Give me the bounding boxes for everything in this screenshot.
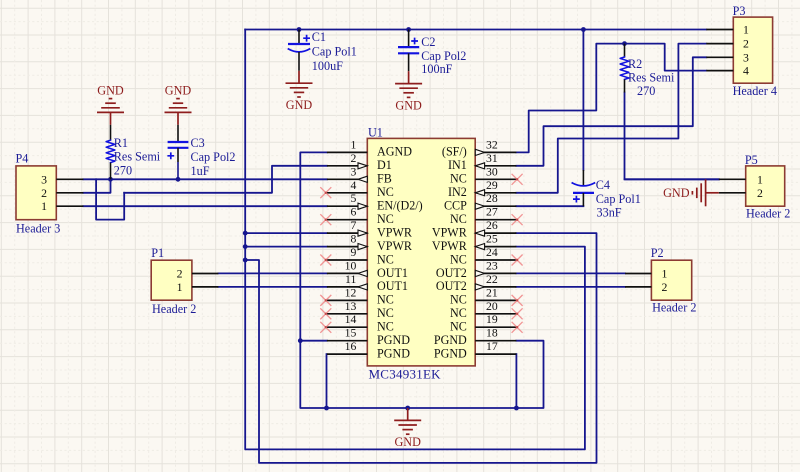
wire P4.2 riser <box>83 179 110 193</box>
svg-text:1: 1 <box>350 138 356 151</box>
svg-text:100uF: 100uF <box>312 59 343 73</box>
svg-text:AGND: AGND <box>377 145 412 159</box>
header P2 <box>651 260 691 300</box>
svg-text:2: 2 <box>350 152 356 165</box>
pin 4 NC <box>327 192 367 194</box>
svg-text:OUT1: OUT1 <box>377 266 408 280</box>
svg-text:7: 7 <box>350 219 356 232</box>
svg-text:EN/(D2/): EN/(D2/) <box>377 199 423 213</box>
svg-text:27: 27 <box>486 206 498 219</box>
svg-text:Cap Pol1: Cap Pol1 <box>312 45 357 59</box>
pins P5 <box>719 178 746 180</box>
pin 8 VPWR <box>327 246 367 248</box>
pin 19 NC <box>475 326 516 328</box>
pin 24 NC <box>475 259 516 261</box>
wire P5.1 run <box>625 178 719 180</box>
svg-text:GND: GND <box>97 84 124 98</box>
wire R2 bottom to P5.1 <box>625 93 719 180</box>
svg-text:Res Semi: Res Semi <box>628 71 675 85</box>
pin 15 PGND <box>327 340 367 342</box>
ground <box>395 71 422 97</box>
svg-text:Res Semi: Res Semi <box>114 150 161 164</box>
svg-text:13: 13 <box>345 300 357 313</box>
svg-text:270: 270 <box>114 164 132 178</box>
pin 10 OUT1 <box>327 272 367 274</box>
wire VPWR top bus <box>245 29 706 31</box>
pin direction markers U1 <box>358 163 367 169</box>
junction pin 15 <box>298 338 303 343</box>
header P5 <box>746 166 785 206</box>
svg-text:P3: P3 <box>733 4 746 18</box>
svg-text:100nF: 100nF <box>421 62 452 76</box>
pin 3 FB <box>327 178 367 180</box>
wire AGND pin 1 riser <box>300 152 543 408</box>
no-connect pin 12 <box>320 295 331 306</box>
capacitor C3 <box>177 125 179 142</box>
junction R1 bottom <box>108 177 113 182</box>
wire PGND pin 15 <box>300 340 327 342</box>
wire VPWR pin 7 tap <box>245 232 327 234</box>
junction ground stem <box>405 406 410 411</box>
svg-text:2: 2 <box>743 37 749 51</box>
svg-text:GND: GND <box>394 435 421 449</box>
svg-text:NC: NC <box>377 212 394 226</box>
svg-text:3: 3 <box>41 172 47 186</box>
svg-text:11: 11 <box>345 273 356 286</box>
svg-text:25: 25 <box>486 233 498 246</box>
wire VPWR pin 8 tap <box>245 246 327 248</box>
pin 5 EN/(D2/) <box>327 205 367 207</box>
wire IN2 pin 29 to P3.2 <box>516 44 706 193</box>
pin 16 PGND <box>327 353 367 355</box>
svg-text:32: 32 <box>486 138 498 151</box>
svg-text:NC: NC <box>377 252 394 266</box>
pin 23 OUT2 <box>475 272 516 274</box>
wire IN1 pin 31 to P3.3 <box>516 57 706 166</box>
pin 17 PGND <box>475 353 516 355</box>
pin 2 D1 <box>327 165 367 167</box>
svg-text:(SF/): (SF/) <box>442 145 467 159</box>
pins P4 <box>56 178 83 180</box>
svg-text:16: 16 <box>345 340 357 353</box>
svg-text:Header 2: Header 2 <box>152 302 196 316</box>
svg-text:NC: NC <box>377 185 394 199</box>
pin 32 (SF/) <box>475 151 516 153</box>
svg-text:6: 6 <box>350 206 356 219</box>
pin 11 OUT1 <box>327 286 367 288</box>
svg-text:Header 2: Header 2 <box>652 301 696 315</box>
wire SF/ pin 32 to P3.4 and R2 <box>516 44 706 153</box>
svg-text:5: 5 <box>350 192 356 205</box>
header P4 <box>16 166 56 220</box>
svg-text:4: 4 <box>350 179 356 192</box>
svg-text:GND: GND <box>165 84 192 98</box>
no-connect pin 19 <box>512 322 523 333</box>
svg-text:NC: NC <box>377 306 394 320</box>
svg-text:R1: R1 <box>114 136 128 150</box>
svg-text:1: 1 <box>757 172 763 186</box>
no-connect pin 20 <box>512 308 523 319</box>
pin 22 OUT2 <box>475 286 516 288</box>
wire P4.3 to FB pin 3 <box>83 178 327 180</box>
pins P1 <box>192 273 219 275</box>
svg-text:19: 19 <box>486 313 498 326</box>
svg-text:1: 1 <box>177 280 183 294</box>
ground <box>692 179 718 206</box>
pin 27 NC <box>475 219 516 221</box>
svg-text:PGND: PGND <box>377 346 410 360</box>
svg-text:U1: U1 <box>368 126 383 140</box>
svg-text:26: 26 <box>486 219 498 232</box>
svg-text:1: 1 <box>41 199 47 213</box>
svg-text:OUT1: OUT1 <box>377 279 408 293</box>
svg-text:2: 2 <box>177 267 183 281</box>
pin 18 PGND <box>475 340 516 342</box>
junction C1 top <box>297 27 302 32</box>
svg-text:2: 2 <box>757 186 763 200</box>
pin 21 NC <box>475 299 516 301</box>
svg-text:33nF: 33nF <box>597 205 622 219</box>
svg-text:31: 31 <box>486 152 498 165</box>
svg-text:PGND: PGND <box>434 333 467 347</box>
header P1 <box>151 260 192 300</box>
no-connect pin 9 <box>320 255 331 266</box>
capacitor C1 <box>298 30 300 45</box>
pins P3 <box>706 29 733 31</box>
svg-text:C4: C4 <box>596 178 610 192</box>
junction pin 16 riser <box>324 406 329 411</box>
pin 20 NC <box>475 313 516 315</box>
svg-text:NC: NC <box>450 320 467 334</box>
svg-text:18: 18 <box>486 327 498 340</box>
svg-text:24: 24 <box>486 246 498 259</box>
pins P2 <box>625 273 651 275</box>
svg-text:OUT2: OUT2 <box>436 279 467 293</box>
svg-text:VPWR: VPWR <box>377 225 413 239</box>
svg-text:VPWR: VPWR <box>432 225 468 239</box>
resistor R2 <box>624 44 626 57</box>
ground <box>165 99 192 125</box>
svg-text:9: 9 <box>350 246 356 259</box>
no-connect pin 4 <box>320 187 331 198</box>
svg-text:R2: R2 <box>628 57 642 71</box>
svg-text:Header 4: Header 4 <box>733 84 777 98</box>
wire OUT2 pin 23 to P2.1 <box>516 272 625 274</box>
no-connect pin 13 <box>320 308 331 319</box>
svg-text:FB: FB <box>377 172 392 186</box>
svg-text:3: 3 <box>350 165 356 178</box>
pin 12 NC <box>327 299 367 301</box>
no-connect pin 24 <box>512 255 523 266</box>
resistor R1 <box>110 125 112 140</box>
pin 28 CCP <box>475 205 516 207</box>
svg-text:17: 17 <box>486 340 498 353</box>
svg-text:IN1: IN1 <box>448 158 467 172</box>
junction C3 bottom <box>176 177 181 182</box>
no-connect pin 14 <box>320 322 331 333</box>
svg-text:2: 2 <box>41 186 47 200</box>
svg-text:C3: C3 <box>191 136 205 150</box>
svg-text:270: 270 <box>637 84 655 98</box>
svg-text:14: 14 <box>345 313 357 326</box>
ground <box>286 71 313 97</box>
wire P1.2 to OUT1 pin 10 <box>218 272 327 274</box>
pin 31 IN1 <box>475 165 516 167</box>
svg-text:22: 22 <box>486 273 498 286</box>
pin 13 NC <box>327 313 367 315</box>
junction VPWR branch <box>243 258 248 263</box>
svg-text:NC: NC <box>450 172 467 186</box>
junction pin 17 riser <box>514 406 519 411</box>
svg-text:C2: C2 <box>421 35 435 49</box>
svg-text:NC: NC <box>450 306 467 320</box>
wire P4.1 to EN pin 5 <box>83 205 327 207</box>
svg-text:10: 10 <box>345 259 357 272</box>
svg-text:4: 4 <box>743 64 749 78</box>
svg-text:3: 3 <box>743 50 749 64</box>
svg-text:P2: P2 <box>651 246 664 260</box>
svg-text:GND: GND <box>663 186 690 200</box>
no-connect pin 21 <box>512 295 523 306</box>
capacitor C2 <box>408 30 410 48</box>
svg-text:D1: D1 <box>377 158 392 172</box>
svg-text:1uF: 1uF <box>191 164 210 178</box>
svg-text:P5: P5 <box>745 153 758 167</box>
pin 14 NC <box>327 326 367 328</box>
svg-text:CCP: CCP <box>444 199 467 213</box>
svg-text:NC: NC <box>450 252 467 266</box>
svg-text:15: 15 <box>345 327 357 340</box>
svg-text:Header 2: Header 2 <box>746 206 790 220</box>
svg-text:MC34931EK: MC34931EK <box>369 367 442 382</box>
svg-text:1: 1 <box>743 23 749 37</box>
svg-text:Cap Pol2: Cap Pol2 <box>191 150 236 164</box>
pin 30 NC <box>475 178 516 180</box>
svg-text:1: 1 <box>662 267 668 281</box>
svg-text:PGND: PGND <box>377 333 410 347</box>
svg-text:NC: NC <box>377 293 394 307</box>
no-connect pin 30 <box>512 174 523 185</box>
svg-text:Header 3: Header 3 <box>16 222 60 236</box>
svg-text:VPWR: VPWR <box>377 239 413 253</box>
svg-text:2: 2 <box>662 280 668 294</box>
wire D1 pin 2 run <box>124 166 327 193</box>
svg-text:28: 28 <box>486 192 498 205</box>
svg-text:GND: GND <box>395 98 422 112</box>
svg-text:P4: P4 <box>16 152 29 166</box>
pin 26 VPWR <box>475 232 516 234</box>
svg-text:C1: C1 <box>312 30 326 44</box>
pin 25 VPWR <box>475 246 516 248</box>
wire PGND pin 17 riser <box>515 354 517 408</box>
pin 7 VPWR <box>327 232 367 234</box>
svg-text:VPWR: VPWR <box>432 239 468 253</box>
no-connect pin 27 <box>512 214 523 225</box>
no-connect pin 6 <box>320 214 331 225</box>
svg-text:NC: NC <box>450 293 467 307</box>
svg-text:8: 8 <box>350 233 356 246</box>
wire P4.3 jog down <box>96 179 124 219</box>
ground <box>394 408 421 434</box>
wire VPWR left riser / bottom run / right riser to pin 25 <box>245 30 585 450</box>
junction C2 top <box>406 27 411 32</box>
svg-text:IN2: IN2 <box>448 185 467 199</box>
pin 9 NC <box>327 259 367 261</box>
junction pin 8 <box>243 244 248 249</box>
junction R2 top <box>622 41 627 46</box>
svg-text:12: 12 <box>345 286 357 299</box>
junction C4 riser <box>581 27 586 32</box>
ground <box>97 99 124 125</box>
svg-text:NC: NC <box>450 212 467 226</box>
svg-text:NC: NC <box>377 320 394 334</box>
wire PGND pin 16 riser <box>326 354 328 408</box>
svg-text:Cap Pol1: Cap Pol1 <box>596 192 641 206</box>
pin 1 AGND <box>327 151 367 153</box>
wire OUT2 pin 22 to P2.2 <box>516 286 625 288</box>
header P3 <box>733 17 772 83</box>
wire C4 riser from top bus <box>582 30 584 171</box>
wire CCP pin 28 to C4 <box>516 205 583 207</box>
svg-text:PGND: PGND <box>434 346 467 360</box>
svg-text:20: 20 <box>486 300 498 313</box>
svg-text:21: 21 <box>486 286 498 299</box>
svg-text:OUT2: OUT2 <box>436 266 467 280</box>
svg-text:30: 30 <box>486 165 498 178</box>
pin 29 IN2 <box>475 192 516 194</box>
wire VPWR branch riser / bottom run / right riser to pin 26 <box>245 233 596 463</box>
wire P1.1 to OUT1 pin 11 <box>218 286 327 288</box>
junction pin 7 <box>243 231 248 236</box>
svg-text:P1: P1 <box>151 246 164 260</box>
svg-text:29: 29 <box>486 179 498 192</box>
pin 6 NC <box>327 219 367 221</box>
svg-text:GND: GND <box>286 98 313 112</box>
svg-text:Cap Pol2: Cap Pol2 <box>421 49 466 63</box>
capacitor C4 <box>582 170 584 186</box>
IC U1 MC34931EK body <box>367 138 475 366</box>
svg-text:23: 23 <box>486 259 498 272</box>
